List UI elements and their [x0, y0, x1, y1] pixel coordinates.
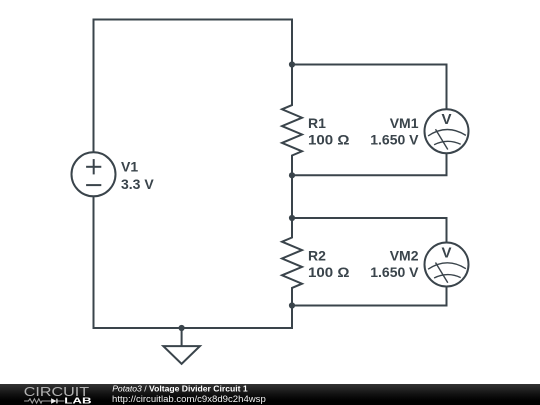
- voltage source V1: [72, 152, 116, 196]
- svg-text:100 Ω: 100 Ω: [308, 132, 350, 148]
- wire VM1 minus terminal to node B: [292, 153, 447, 175]
- wire node D down across bottom to V1 minus terminal: [94, 197, 293, 329]
- voltmeter VM2: [425, 243, 469, 287]
- wire VM2 minus terminal to node D: [292, 287, 447, 306]
- wire node A to VM1 plus terminal: [292, 65, 447, 110]
- svg-text:R1: R1: [308, 115, 326, 131]
- svg-text:1.650 V: 1.650 V: [370, 264, 419, 280]
- ground stub wire: [181, 328, 183, 346]
- junction node B: [289, 172, 295, 178]
- svg-text:1.650 V: 1.650 V: [370, 132, 419, 148]
- voltmeter VM1: [425, 109, 469, 153]
- junction ground node: [179, 325, 185, 331]
- wire V1 plus terminal up and across top to R1 branch: [94, 20, 293, 153]
- wire node C to VM2 plus terminal: [292, 218, 447, 243]
- svg-text:VM2: VM2: [390, 248, 419, 264]
- svg-text:Potato3 / Voltage Divider Circ: Potato3 / Voltage Divider Circuit 1: [112, 384, 248, 394]
- svg-text:LAB: LAB: [64, 396, 91, 405]
- ground symbol: [163, 346, 200, 364]
- svg-text:V1: V1: [121, 159, 138, 175]
- svg-text:V: V: [441, 245, 451, 262]
- svg-text:3.3 V: 3.3 V: [121, 176, 154, 192]
- resistor R1: [282, 65, 302, 176]
- resistor R2: [282, 218, 302, 306]
- svg-text:http://circuitlab.com/c9x8d9c2: http://circuitlab.com/c9x8d9c2h4wsp: [112, 394, 266, 404]
- CircuitLab logo resistor zigzag and diode: [24, 399, 64, 404]
- svg-text:V: V: [441, 111, 451, 128]
- svg-text:100 Ω: 100 Ω: [308, 264, 350, 280]
- junction node D: [289, 302, 295, 308]
- junction node C: [289, 215, 295, 221]
- wire node B to node C: [291, 175, 293, 218]
- junction node A: [289, 61, 295, 67]
- svg-text:R2: R2: [308, 248, 326, 264]
- svg-text:VM1: VM1: [390, 115, 419, 131]
